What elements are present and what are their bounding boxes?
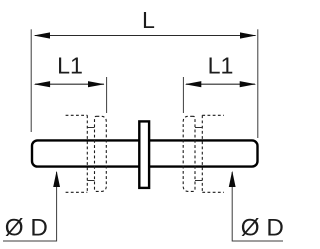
extension line left collar outer edge xyxy=(106,77,108,113)
dimension L1 left arrow left xyxy=(34,81,51,87)
diameter D label right xyxy=(241,214,284,241)
dimension L arrow right xyxy=(240,32,257,38)
svg-text:L1: L1 xyxy=(57,53,83,79)
leader line right (diameter D) xyxy=(232,172,283,241)
svg-text:Ø D: Ø D xyxy=(241,214,284,241)
left nut top face line (dashed) xyxy=(66,114,88,116)
dimension L1 left label xyxy=(57,53,83,79)
left nut bottom face line (dashed) xyxy=(66,191,88,193)
left nut inner edge (crosses shaft) xyxy=(86,115,88,192)
dimension L line xyxy=(35,35,256,37)
dimension L label xyxy=(142,7,155,33)
dimension L1 right arrow right xyxy=(240,81,257,87)
leader line left (diameter D) xyxy=(3,172,57,241)
extension line right (shaft right end) xyxy=(257,29,259,138)
svg-text:Ø D: Ø D xyxy=(5,214,48,241)
left nut notch bottom xyxy=(87,180,94,182)
leader arrow left xyxy=(53,171,60,187)
dimension L arrow left xyxy=(34,32,51,38)
dimension L1 left line xyxy=(35,83,104,85)
left collar capsule (dashed) xyxy=(95,116,107,191)
leader arrow right xyxy=(229,171,236,187)
right nut bottom face line (dashed) xyxy=(202,191,224,193)
shaft body xyxy=(32,140,258,166)
right collar capsule (dashed) xyxy=(183,116,195,191)
left nut notch top xyxy=(87,127,94,129)
dimension L1 left arrow right xyxy=(88,81,105,87)
diameter D label left xyxy=(5,214,48,241)
dimension L1 right line xyxy=(186,83,255,85)
right nut inner edge (crosses shaft) xyxy=(201,115,203,192)
right nut notch top xyxy=(195,127,202,129)
centre flange xyxy=(139,121,149,187)
svg-text:L: L xyxy=(142,7,155,33)
extension line right collar outer edge xyxy=(182,77,184,113)
right nut notch bottom xyxy=(195,180,202,182)
right nut top face line (dashed) xyxy=(202,114,224,116)
dimension L1 right arrow left xyxy=(185,81,202,87)
svg-text:L1: L1 xyxy=(208,53,234,79)
dimension L1 right label xyxy=(208,53,234,79)
extension line left (shaft left end) xyxy=(30,29,32,132)
